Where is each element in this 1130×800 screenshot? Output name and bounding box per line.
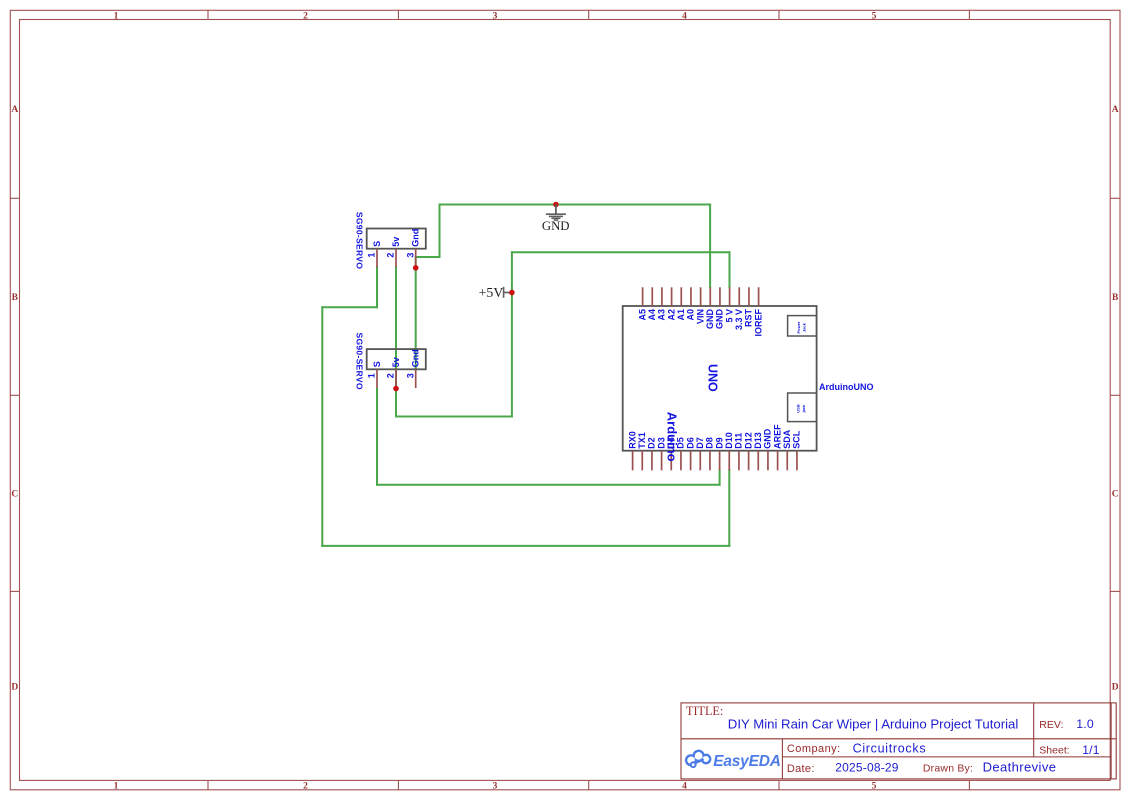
svg-text:A2: A2 — [666, 309, 676, 321]
svg-text:2: 2 — [386, 253, 396, 258]
svg-text:S: S — [372, 241, 382, 247]
svg-text:D13: D13 — [753, 432, 763, 449]
svg-text:D2: D2 — [647, 437, 657, 449]
svg-text:GND: GND — [705, 309, 715, 330]
svg-text:A5: A5 — [637, 309, 647, 321]
svg-text:Sheet:: Sheet: — [1039, 745, 1069, 757]
svg-text:1: 1 — [114, 12, 119, 22]
svg-text:2: 2 — [303, 781, 308, 791]
svg-text:5v: 5v — [391, 237, 401, 247]
svg-text:2: 2 — [303, 12, 308, 22]
svg-text:A0: A0 — [686, 309, 696, 321]
svg-text:5: 5 — [872, 12, 877, 22]
svg-text:A3: A3 — [657, 309, 667, 321]
svg-text:1: 1 — [367, 373, 377, 378]
svg-text:D8: D8 — [705, 437, 715, 449]
svg-text:A1: A1 — [676, 309, 686, 321]
svg-text:GND: GND — [715, 309, 725, 330]
svg-text:Gnd: Gnd — [411, 229, 421, 247]
svg-text:5v: 5v — [391, 357, 401, 367]
svg-text:1/1: 1/1 — [1082, 743, 1099, 757]
svg-text:UNO: UNO — [706, 364, 720, 392]
svg-text:EasyEDA: EasyEDA — [713, 753, 781, 770]
svg-text:Company:: Company: — [787, 743, 841, 755]
svg-text:Drawn By:: Drawn By: — [923, 763, 973, 775]
svg-text:4: 4 — [682, 12, 687, 22]
svg-text:IOREF: IOREF — [753, 309, 763, 337]
svg-text:S: S — [372, 361, 382, 367]
svg-text:D10: D10 — [724, 432, 734, 449]
svg-text:3: 3 — [493, 781, 498, 791]
svg-text:Circuitrocks: Circuitrocks — [853, 741, 927, 755]
svg-text:DIY Mini Rain Car Wiper | Ardu: DIY Mini Rain Car Wiper | Arduino Projec… — [728, 717, 1019, 732]
svg-text:Power: Power — [796, 321, 801, 333]
svg-text:ArduinoUNO: ArduinoUNO — [819, 382, 874, 392]
svg-text:1: 1 — [114, 781, 119, 791]
svg-text:D9: D9 — [714, 437, 724, 449]
svg-text:3: 3 — [405, 253, 415, 258]
svg-text:Date:: Date: — [787, 763, 815, 775]
svg-text:B: B — [12, 293, 19, 303]
svg-text:3: 3 — [405, 373, 415, 378]
svg-text:SDA: SDA — [782, 429, 792, 449]
svg-text:GND: GND — [763, 428, 773, 449]
svg-text:A4: A4 — [647, 309, 657, 321]
svg-text:D: D — [11, 683, 18, 693]
svg-text:2: 2 — [386, 373, 396, 378]
svg-text:D11: D11 — [734, 433, 744, 449]
svg-text:A: A — [1112, 105, 1119, 115]
svg-text:D7: D7 — [695, 437, 705, 449]
svg-text:TX1: TX1 — [637, 432, 647, 449]
svg-text:1.0: 1.0 — [1076, 717, 1094, 731]
svg-text:Gnd: Gnd — [411, 349, 421, 367]
svg-text:2025-08-29: 2025-08-29 — [835, 760, 899, 774]
svg-text:3: 3 — [493, 12, 498, 22]
svg-text:SCL: SCL — [792, 430, 802, 449]
svg-text:5 V: 5 V — [724, 309, 734, 323]
svg-text:Jack: Jack — [802, 322, 807, 332]
svg-text:C: C — [11, 490, 18, 500]
svg-text:AREF: AREF — [772, 424, 782, 449]
svg-text:+5V: +5V — [479, 285, 504, 300]
svg-text:1: 1 — [367, 253, 377, 258]
svg-text:4: 4 — [682, 781, 687, 791]
svg-text:RX0: RX0 — [627, 431, 637, 449]
svg-text:USB: USB — [796, 404, 801, 413]
svg-text:RST: RST — [744, 308, 754, 327]
svg-text:5: 5 — [872, 781, 877, 791]
svg-text:REV:: REV: — [1039, 719, 1063, 731]
svg-text:3.3 V: 3.3 V — [734, 309, 744, 330]
svg-text:B: B — [1112, 293, 1119, 303]
svg-text:SG90-SERVO: SG90-SERVO — [354, 212, 364, 269]
svg-text:Deathrevive: Deathrevive — [983, 759, 1057, 774]
svg-text:C: C — [1112, 490, 1119, 500]
svg-text:D: D — [1112, 683, 1119, 693]
svg-text:D12: D12 — [743, 432, 753, 449]
svg-text:TITLE:: TITLE: — [686, 704, 723, 718]
svg-text:jack: jack — [801, 404, 806, 414]
svg-text:GND: GND — [542, 219, 570, 233]
svg-text:A: A — [11, 105, 18, 115]
svg-text:Arduino: Arduino — [664, 412, 679, 462]
svg-text:VIN: VIN — [695, 309, 705, 324]
svg-text:SG90-SERVO: SG90-SERVO — [354, 333, 364, 390]
svg-text:D6: D6 — [685, 437, 695, 449]
